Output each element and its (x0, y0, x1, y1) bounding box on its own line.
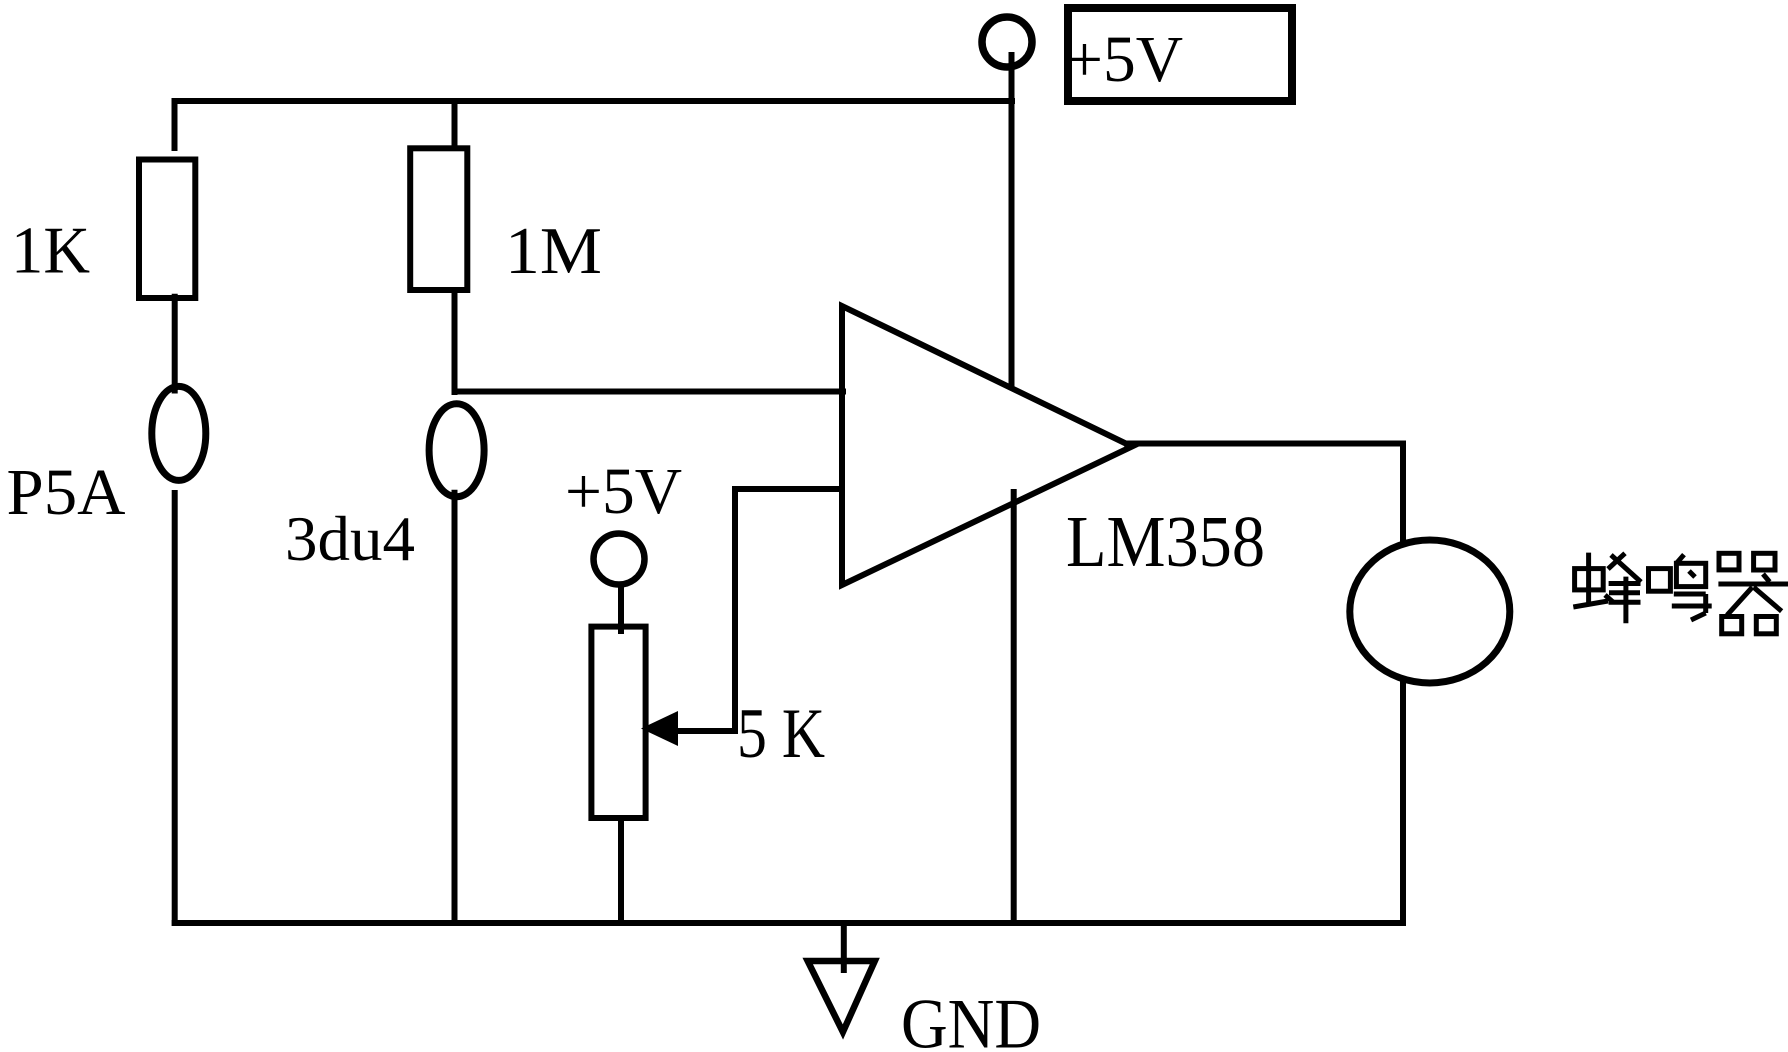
wire 1K top stem (172, 98, 178, 151)
wire wiper vertical (732, 486, 738, 731)
wire potentiometer bottom (618, 821, 624, 926)
wire GND stem (841, 920, 847, 973)
svg-text:1M: 1M (505, 214, 602, 288)
power label box (1068, 8, 1292, 101)
wire 1K to P5A sensor (172, 294, 178, 394)
svg-text:+5V: +5V (1066, 23, 1183, 96)
microphone 3du4 ellipse (429, 404, 484, 497)
wire bottom ground bus (172, 920, 1406, 926)
resistor R1 1K (139, 160, 195, 299)
sensor P5A ellipse (152, 386, 206, 480)
terminal +5V mid circle (594, 534, 645, 585)
svg-text:3du4: 3du4 (285, 503, 415, 574)
wire op-amp output to buzzer (1124, 444, 1403, 543)
wire op-amp V- down to bottom bus (1011, 489, 1017, 926)
resistor R2 1M (410, 148, 467, 290)
wiper arrowhead (641, 711, 678, 746)
svg-text:GND: GND (901, 986, 1041, 1052)
potentiometer 5K body (591, 627, 645, 818)
wire node A to op-amp plus input (452, 389, 847, 395)
svg-text:P5A: P5A (7, 456, 126, 529)
wire P5A to bottom bus (172, 490, 178, 926)
svg-text:1K: 1K (11, 214, 90, 288)
ground symbol (808, 961, 875, 1032)
buzzer B1 (1350, 540, 1510, 683)
wire +5V terminal stem (1009, 52, 1015, 388)
wire 1M bottom to node A (452, 293, 458, 395)
label buzzer hanzi feng (1573, 553, 1641, 624)
wire wiper arrow tail (670, 728, 738, 734)
terminal +5V top circle (982, 17, 1032, 67)
op-amp U1 LM358 (842, 306, 1132, 585)
wire mid terminal to potentiometer (618, 582, 624, 634)
svg-text:+5V: +5V (565, 455, 682, 528)
wire minus input horizontal (735, 486, 845, 492)
wire 3du4 to bottom bus (452, 490, 458, 926)
wire buzzer bottom (1400, 681, 1406, 926)
wire top +5V bus (172, 98, 1015, 104)
wire 1M top stem (452, 98, 458, 151)
svg-text:5 K: 5 K (737, 695, 825, 773)
label buzzer hanzi qi (1718, 553, 1788, 634)
label buzzer hanzi ming (1649, 555, 1712, 620)
svg-text:LM358: LM358 (1066, 501, 1265, 582)
